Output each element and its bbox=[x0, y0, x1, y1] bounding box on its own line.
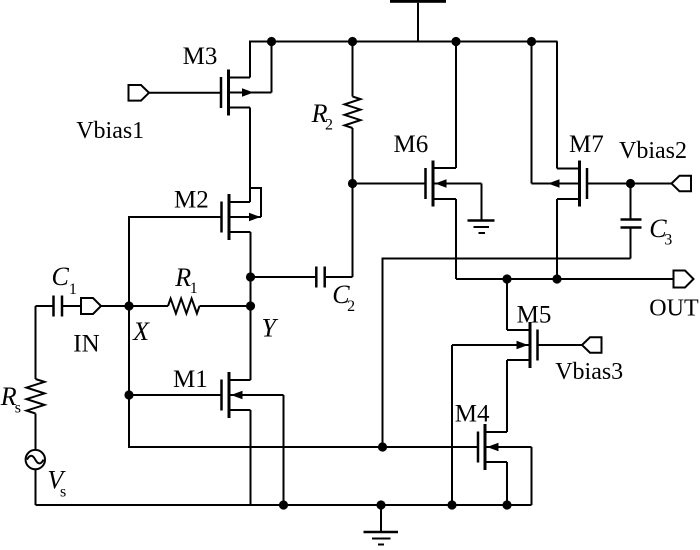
transistor M3 bbox=[221, 42, 272, 203]
svg-text:M1: M1 bbox=[173, 366, 208, 393]
svg-text:C: C bbox=[52, 262, 70, 291]
svg-text:Vbias3: Vbias3 bbox=[555, 359, 623, 385]
resistor R1 bbox=[129, 299, 251, 314]
transistor M2 bbox=[222, 188, 262, 380]
svg-text:OUT: OUT bbox=[649, 296, 699, 322]
junction node dots bbox=[124, 37, 635, 510]
transistor M6 bbox=[353, 42, 482, 280]
svg-text:2: 2 bbox=[347, 298, 355, 315]
svg-text:M3: M3 bbox=[183, 43, 218, 70]
resistor R2 bbox=[345, 42, 361, 278]
transistor M1 bbox=[129, 372, 284, 505]
ground (M6) bbox=[468, 184, 495, 234]
capacitor C2 bbox=[251, 267, 353, 288]
svg-text:s: s bbox=[15, 400, 21, 417]
Vbias2 terminal bbox=[672, 176, 692, 192]
source Vs bbox=[26, 450, 45, 505]
svg-text:Vbias2: Vbias2 bbox=[619, 138, 687, 164]
IN terminal bbox=[81, 298, 129, 314]
transistor M7 bbox=[532, 42, 672, 280]
capacitor C1 bbox=[36, 296, 82, 317]
Vbias1 terminal bbox=[129, 85, 222, 101]
svg-text:M4: M4 bbox=[455, 401, 490, 428]
svg-text:3: 3 bbox=[664, 232, 672, 249]
svg-text:2: 2 bbox=[325, 116, 333, 133]
VDD supply bar bbox=[390, 0, 446, 3]
svg-text:M5: M5 bbox=[517, 301, 552, 328]
svg-text:X: X bbox=[132, 317, 150, 346]
transistor M5 bbox=[452, 279, 582, 505]
transistor M4 bbox=[129, 216, 532, 505]
svg-text:Vbias1: Vbias1 bbox=[76, 118, 144, 144]
svg-text:M7: M7 bbox=[569, 131, 604, 158]
svg-text:1: 1 bbox=[190, 280, 198, 297]
Vbias3 terminal bbox=[582, 337, 602, 352]
svg-text:1: 1 bbox=[69, 281, 77, 298]
svg-text:M2: M2 bbox=[174, 186, 209, 213]
wire C3 bottom to M4 gate bbox=[383, 259, 631, 448]
svg-text:s: s bbox=[60, 484, 66, 501]
capacitor C3 bbox=[621, 184, 642, 259]
bottom rail wire bbox=[36, 504, 532, 506]
svg-text:R: R bbox=[174, 263, 191, 292]
resistor Rs bbox=[27, 306, 45, 450]
svg-text:Y: Y bbox=[262, 314, 279, 343]
ground (bottom) bbox=[364, 505, 399, 545]
VDD stub wire bbox=[417, 3, 419, 42]
OUT terminal bbox=[674, 271, 694, 288]
svg-text:IN: IN bbox=[73, 330, 99, 357]
wire M2 gate to node X column bbox=[129, 216, 222, 218]
OUT rail wire bbox=[456, 278, 674, 280]
VDD rail wire bbox=[249, 41, 558, 43]
svg-text:M6: M6 bbox=[394, 131, 429, 158]
